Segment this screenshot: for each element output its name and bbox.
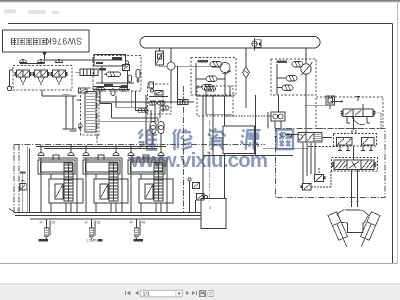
twin check pills (149, 101, 165, 105)
pump group 2 (dashed box) (271, 59, 316, 95)
title block (3, 30, 90, 52)
manifold top box (94, 55, 126, 67)
brake charge valve (left) (263, 132, 338, 148)
hydraulic tank (capsule) (140, 37, 320, 49)
steering cylinder valve (bottom) (332, 158, 378, 172)
pilot circuit enclosure upper right (dashed) (316, 97, 383, 129)
toolbar print icon (disabled) (208, 291, 214, 297)
label manifold (96, 57, 128, 88)
tiny pressure label (20, 171, 26, 173)
pump group 1 (dashed box) (191, 58, 236, 96)
unload valve small 1 (188, 178, 200, 213)
relief valve P1 (198, 60, 223, 67)
valve capsule 1b (202, 85, 213, 91)
return filter 2 (89, 220, 95, 239)
drain wire and port circle left of cluster 1 (7, 70, 13, 91)
check valve diamond (243, 48, 250, 108)
title text (rotated 180) (12, 36, 83, 46)
pilot pair A1 (15, 60, 32, 86)
return filter 3 (134, 220, 140, 239)
pilot pair A3 (51, 60, 68, 86)
steering pilot cluster (dashed) (148, 84, 172, 114)
gauge capsule 2 (158, 122, 164, 134)
drawing frame top (8, 23, 393, 25)
pilot valve cluster 1 (dashed enclosure) (13, 66, 72, 91)
steering unit enclosure (dashed) (197, 86, 233, 116)
svg-text:1.5MPa: 1.5MPa (86, 239, 98, 243)
wires pilot cluster 1 (23, 60, 63, 96)
svg-text:www.vixiu.com: www.vixiu.com (130, 150, 268, 172)
suction wire to pump 1 (160, 65, 168, 67)
svg-text:SW976K: SW976K (45, 36, 82, 46)
pilot drain wires right (303, 143, 315, 184)
check pill lying 2 (119, 88, 128, 92)
wires pump group 1 (196, 63, 225, 95)
unload valve small 2 (196, 194, 208, 213)
watermark 维修资源网 (vector) (139, 128, 294, 150)
hatched block on pilot line (178, 100, 189, 105)
breather on tank (251, 39, 261, 51)
section boundary dash-dot lower left (14, 86, 265, 215)
boom valve group (38, 145, 83, 213)
flow divider (two circles) (271, 112, 285, 121)
toolbar save icon (200, 290, 206, 296)
gerotor hatched pill (205, 87, 216, 92)
svg-text:3F: 3F (85, 220, 89, 224)
pilot pair A2 (33, 60, 50, 86)
bank feed lines left (23, 147, 30, 213)
svg-text:2B: 2B (52, 220, 56, 224)
steering cylinder left (328, 212, 351, 249)
pilot relief small valve 1 (315, 168, 326, 182)
check pill horizontal (105, 72, 121, 77)
hand pump cylinder (76, 69, 99, 76)
solenoid pilot valve upper right (326, 96, 335, 109)
page right edge (397, 2, 399, 264)
long vertical wires center (146, 95, 293, 199)
label pump 2 (277, 60, 288, 63)
pill vertical small (128, 75, 132, 82)
pilot feed lines above valve bank (36, 147, 166, 149)
pilot manifold block (dashed enclosure) (93, 56, 141, 92)
pilot tee mark (356, 97, 360, 102)
pill vertical with spring (136, 70, 140, 83)
watermark www.vixiu.com (130, 150, 268, 172)
lower pill (160, 106, 169, 110)
toolbar first-page button (125, 291, 130, 295)
toolbar page combo box (140, 290, 182, 297)
toolbar background (0, 284, 400, 300)
center block rectangle (223, 126, 255, 154)
svg-text:4F: 4F (130, 220, 134, 224)
gauge capsule 1 (150, 122, 156, 134)
check pill lying 1 (96, 88, 105, 92)
small pilot head (149, 82, 163, 95)
steering unit wires (196, 86, 232, 115)
window top edge (0, 0, 400, 2)
page bottom edge (0, 263, 398, 265)
bank relief valve left (20, 180, 26, 190)
pill vertical lower (111, 89, 115, 96)
solenoid shutoff valve (123, 61, 130, 71)
pump 1 circle (220, 63, 231, 74)
steering main valve (4/3) (306, 100, 381, 130)
svg-text:1F: 1F (17, 208, 21, 212)
throttle box with arrow (79, 88, 88, 93)
accumulator pair (63, 94, 77, 131)
wire from title block to pilot bus (20, 56, 123, 64)
return bus lines (9, 209, 201, 220)
priority valve block (dashed) (81, 88, 100, 135)
toolbar next button (186, 291, 190, 295)
wires priority valve to steering unit (77, 100, 195, 121)
port labels on bus (17, 208, 146, 224)
articulation hub plate (337, 210, 369, 233)
toolbar prev button (135, 291, 139, 295)
pump 2 circle (variable) (301, 48, 313, 76)
svg-text:2F: 2F (40, 220, 44, 224)
check pill on pilot line (138, 108, 148, 113)
steering cylinder right (357, 212, 380, 249)
toolbar last-page button (192, 291, 197, 295)
wires pump group 2 (277, 64, 306, 133)
accumulator charge bank (two sections) (334, 130, 377, 151)
valve capsule 2b (282, 85, 293, 91)
relief valve P2 (292, 62, 303, 68)
scan smudges top-left (4, 9, 59, 14)
drawing frame right (392, 24, 394, 264)
cluster wires (149, 97, 168, 145)
manifold wires (93, 66, 138, 90)
filter under tank (156, 48, 164, 66)
wires steering valve to cylinders (351, 146, 359, 207)
valve capsule 2a (286, 76, 297, 82)
priority valve spool (80, 92, 97, 133)
aux valve group (128, 145, 173, 213)
junction circle J1 (167, 48, 175, 102)
pilot routing wires from manifold (100, 91, 148, 118)
svg-text:1/1: 1/1 (143, 291, 151, 297)
pilot relief small valve 2 (301, 171, 332, 190)
arrow under title block (43, 53, 47, 57)
valve capsule 1a (206, 76, 217, 82)
breather between accumulators (78, 122, 82, 129)
labels under filters (39, 239, 144, 243)
feed wire to metering block (177, 66, 179, 99)
steering circuit enclosure (dash-dot) (276, 129, 386, 198)
svg-text:4B: 4B (142, 220, 146, 224)
bucket valve group (83, 145, 128, 213)
svg-text:3B: 3B (97, 220, 101, 224)
hydraulic tank box (201, 199, 226, 229)
